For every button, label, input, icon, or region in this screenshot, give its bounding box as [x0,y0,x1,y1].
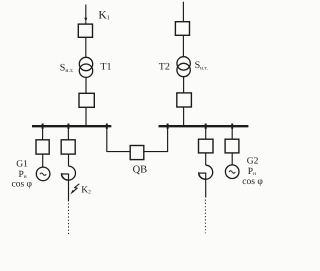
wire: outgoing feeder continuation (dotted) [68,203,70,234]
breaker (G1) [36,140,49,154]
svg-text:K2: K2 [81,185,91,195]
svg-text:Sн.т.: Sн.т. [195,60,208,71]
svg-text:QB: QB [133,164,148,175]
wire: outgoing feeder continuation (dotted) [204,200,206,234]
wire: breaker to reactor LR2 [205,153,207,165]
wire: K1 to breaker Q1 [85,22,87,25]
wire: breaker to left bus [85,107,87,125]
junction tick QB drop [106,124,108,129]
reactor LR2 [199,165,213,179]
breaker (T2 LV side) [177,93,192,107]
breaker (T1 LV side) [79,93,94,107]
breaker Q2 (right HV) [175,22,189,36]
svg-text:Sн.т.: Sн.т. [60,63,74,74]
breaker (G2) [225,139,239,153]
wire: reactor to feeder (K2 point) [68,174,70,201]
breaker QB (bus tie) [130,146,144,160]
junction tick right reactor feeder [205,124,207,129]
transformer T1 [79,57,92,70]
reactor LR1 [62,166,76,180]
wire: breaker to G2 [231,153,233,165]
svg-text:cos φ: cos φ [242,177,263,187]
wire: bus to right reactor breaker [205,127,207,139]
svg-text:cos φ: cos φ [12,179,33,189]
wire: bus to G1 breaker [42,127,44,140]
svg-text:K1: K1 [98,9,109,21]
wire: system feed to Q2 [182,2,184,22]
wire: breaker to reactor LR1 [68,154,70,166]
wire: bus to reactor breaker [67,127,69,140]
wire: T2 to breaker [183,77,185,93]
breaker (right reactor feeder) [199,139,214,153]
wire: breaker to right bus [183,107,185,126]
breaker (left reactor feeder) [61,140,75,154]
svg-text:G2: G2 [247,156,259,166]
junction tick G2 feeder [231,124,233,129]
svg-text:T2: T2 [159,61,170,72]
svg-text:T1: T1 [100,62,111,73]
junction tick QB riser [167,124,169,129]
svg-text:Pн: Pн [248,167,256,177]
bus section 2 (right busbar) [159,125,249,127]
node K2 lightning arrow [73,184,80,192]
transformer T2 [177,57,190,70]
bus section 1 (left busbar) [32,125,111,127]
breaker Q1 (left HV) [78,24,92,37]
wire: system feed to K1 point [85,5,87,19]
wire: Q2 to T2 [182,35,184,56]
wire: T1 to breaker [85,77,87,93]
node K1 arrowhead [84,18,87,22]
wire: left bus drop to QB [107,127,130,152]
wire: bus to G2 breaker [231,127,233,139]
wire: Q1 to T1 [85,37,87,57]
junction tick G1 feeder [42,124,44,129]
junction tick reactor feeder [67,124,69,129]
wire: reactor feeder down [205,173,207,197]
wire: QB to right bus riser [144,127,168,152]
wire: breaker to G1 [42,154,44,167]
svg-text:G1: G1 [16,159,28,169]
generator G2 [225,165,239,179]
generator G1 [36,167,50,181]
